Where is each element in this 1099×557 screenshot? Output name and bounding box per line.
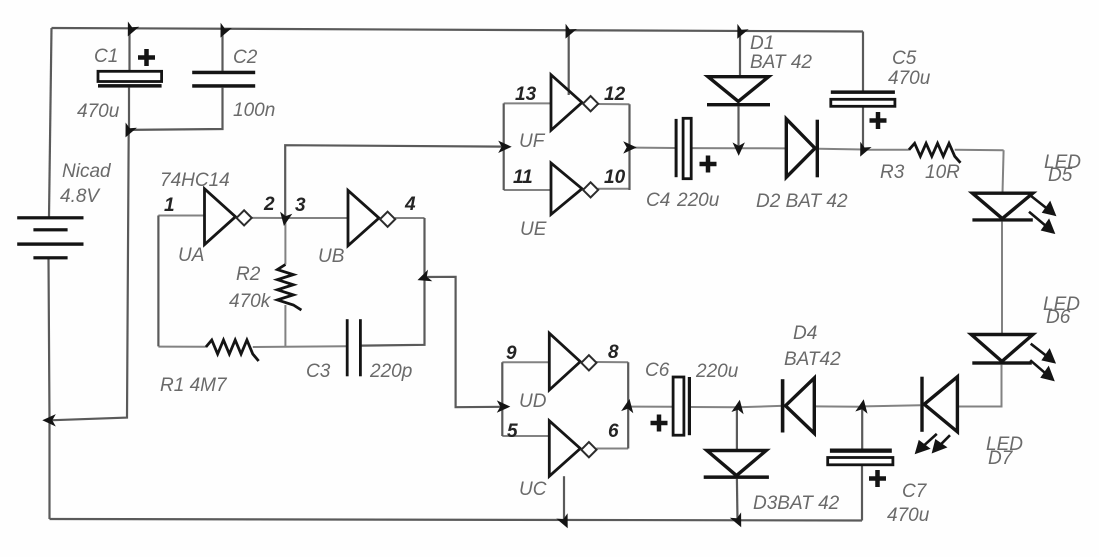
svg-text:UC: UC: [519, 479, 547, 500]
svg-text:9: 9: [506, 343, 517, 364]
svg-text:UA: UA: [178, 245, 204, 266]
svg-text:470u: 470u: [77, 101, 120, 122]
svg-text:C3: C3: [306, 361, 331, 382]
svg-text:11: 11: [513, 167, 533, 188]
svg-text:D3BAT 42: D3BAT 42: [753, 493, 840, 514]
svg-text:4.8V: 4.8V: [60, 186, 101, 207]
svg-text:74HC14: 74HC14: [160, 170, 230, 191]
svg-text:220u: 220u: [695, 361, 739, 382]
svg-text:D2 BAT 42: D2 BAT 42: [756, 191, 848, 212]
svg-text:UB: UB: [318, 246, 345, 267]
svg-text:UF: UF: [519, 131, 546, 152]
svg-text:D1: D1: [750, 33, 774, 54]
svg-text:UD: UD: [519, 391, 547, 412]
svg-text:470u: 470u: [887, 505, 930, 526]
svg-text:10: 10: [604, 167, 626, 188]
svg-text:4: 4: [404, 194, 416, 215]
svg-text:3: 3: [295, 195, 306, 216]
svg-text:D7: D7: [988, 448, 1014, 469]
svg-text:R3: R3: [880, 162, 905, 183]
svg-text:UE: UE: [520, 219, 547, 240]
svg-text:C7: C7: [902, 481, 928, 502]
svg-text:10R: 10R: [925, 162, 960, 183]
svg-text:100n: 100n: [233, 100, 275, 121]
svg-text:Nicad: Nicad: [62, 161, 112, 182]
svg-text:C6: C6: [645, 360, 670, 381]
svg-text:C5: C5: [892, 48, 917, 69]
svg-text:BAT42: BAT42: [784, 349, 841, 370]
svg-text:C2: C2: [233, 47, 258, 68]
svg-text:C4: C4: [646, 190, 670, 211]
svg-text:1: 1: [164, 195, 175, 216]
svg-text:R2: R2: [236, 264, 261, 285]
svg-text:12: 12: [604, 84, 626, 105]
svg-text:220p: 220p: [369, 361, 412, 382]
svg-text:D5: D5: [1048, 165, 1073, 186]
svg-text:2: 2: [263, 194, 275, 215]
svg-text:D6: D6: [1046, 307, 1071, 328]
svg-text:6: 6: [608, 421, 619, 442]
svg-text:470u: 470u: [888, 68, 931, 89]
svg-text:D4: D4: [793, 323, 817, 344]
svg-text:13: 13: [515, 84, 537, 105]
svg-text:5: 5: [507, 421, 518, 442]
svg-text:BAT 42: BAT 42: [750, 52, 812, 73]
svg-text:8: 8: [608, 342, 619, 363]
svg-text:R1 4M7: R1 4M7: [160, 375, 228, 396]
svg-text:470k: 470k: [229, 291, 272, 312]
svg-text:220u: 220u: [676, 190, 720, 211]
svg-text:C1: C1: [94, 46, 118, 67]
